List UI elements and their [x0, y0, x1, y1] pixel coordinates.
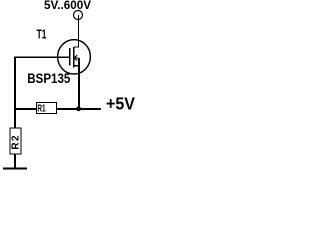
wire source vertical: [78, 58, 80, 109]
wire drain vertical: [78, 15, 80, 47]
svg-text:5V..600V: 5V..600V: [44, 0, 91, 12]
svg-text:R1: R1: [37, 104, 45, 115]
wire R2 to ground: [14, 154, 16, 168]
wire left horizontal to R1: [14, 108, 36, 110]
svg-text:+5V: +5V: [106, 93, 135, 113]
transistor gate bar: [69, 48, 71, 66]
wire gate lead: [14, 56, 69, 58]
transistor arrow shaft: [74, 57, 78, 59]
ground symbol: [3, 168, 27, 170]
transistor source step: [74, 65, 79, 67]
transistor Q1 body circle: [58, 40, 91, 74]
wire gate to R2 vertical: [14, 57, 16, 128]
resistor R2 box: [10, 128, 21, 154]
transistor channel bar: [73, 47, 75, 67]
transistor drain step: [74, 46, 78, 48]
terminal pad circle: [74, 11, 83, 20]
junction dot: [76, 106, 81, 111]
wire R1 to +5V horizontal: [56, 108, 101, 110]
transistor arrow head upper: [74, 55, 77, 58]
resistor R1 box: [37, 103, 57, 114]
svg-text:BSP135: BSP135: [27, 71, 70, 86]
transistor arrow head lower: [74, 58, 77, 61]
svg-text:T1: T1: [37, 26, 47, 41]
